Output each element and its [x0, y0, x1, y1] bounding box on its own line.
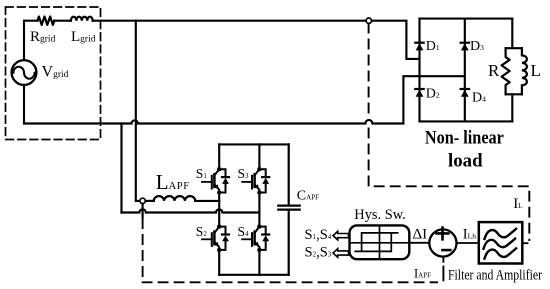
- svg-text:IL: IL: [513, 196, 522, 212]
- inductor L vertical: [522, 48, 527, 94]
- resistor R vertical: [502, 48, 510, 94]
- diode D1: [415, 43, 423, 51]
- grid source dashed box: [6, 7, 101, 140]
- svg-text:S1: S1: [196, 166, 208, 181]
- svg-text:ILh: ILh: [463, 227, 476, 243]
- gate signal arrow S2S3: [333, 249, 349, 258]
- svg-text:D4: D4: [472, 90, 486, 105]
- wire top bus: [93, 21, 420, 59]
- svg-text:D2: D2: [426, 86, 440, 101]
- svg-text:S2,S3: S2,S3: [305, 245, 332, 261]
- transistor S3: [242, 167, 269, 195]
- wire Vgrid top to resistor: [24, 21, 38, 61]
- transistor S2: [202, 224, 229, 252]
- diode D3: [461, 43, 469, 51]
- filter wave 3: [485, 248, 517, 258]
- svg-text:D1: D1: [426, 39, 440, 54]
- hysteresis loop: [355, 233, 398, 252]
- filter wave 2: [484, 239, 516, 249]
- wire APF tap from bottom bus: [120, 124, 122, 213]
- resistor Rgrid: [38, 17, 55, 25]
- current sensor IAPF node: [140, 198, 145, 203]
- voltage source Vgrid: [12, 60, 37, 85]
- load branch wire: [511, 19, 513, 122]
- svg-text:L: L: [531, 61, 541, 80]
- svg-text:Lgrid: Lgrid: [71, 29, 96, 45]
- svg-text:LAPF: LAPF: [156, 170, 190, 194]
- svg-text:Vgrid: Vgrid: [42, 64, 69, 81]
- H-bridge bottom rail: [219, 274, 289, 276]
- filter and amplifier box: [479, 222, 523, 263]
- load RL box bottom bar: [506, 93, 522, 95]
- svg-text:S3: S3: [238, 166, 250, 181]
- diode bridge bottom rail: [420, 120, 513, 122]
- svg-text:D3: D3: [470, 39, 484, 54]
- diode bridge top rail: [420, 18, 513, 20]
- svg-text:CAPF: CAPF: [297, 188, 319, 203]
- filter wave 1: [485, 229, 517, 239]
- dashed IL feedback path: [369, 24, 530, 241]
- wire filter to IL path: [522, 242, 527, 244]
- load RL box top bar: [506, 47, 522, 49]
- svg-text:ΔI: ΔI: [413, 227, 428, 243]
- wire inductor to left leg: [195, 200, 219, 202]
- wire APF lower with hops: [122, 209, 260, 212]
- hysteresis axis horizontal: [350, 242, 410, 244]
- dashed IAPF feedback path: [143, 219, 437, 282]
- svg-text:Non- linear: Non- linear: [425, 127, 504, 148]
- H-bridge right leg: [258, 144, 260, 274]
- diode bridge mid rail: [464, 19, 466, 122]
- current sensor IL node: [366, 18, 371, 23]
- transistor S4: [242, 224, 269, 252]
- svg-text:S2: S2: [196, 224, 208, 239]
- gate signal arrow S1S4: [333, 231, 349, 240]
- H-bridge top rail: [219, 143, 289, 145]
- svg-text:Rgrid: Rgrid: [30, 29, 56, 45]
- hysteresis axis vertical: [379, 225, 381, 259]
- inductor Lgrid: [71, 17, 93, 21]
- diode D2: [415, 89, 423, 97]
- wire bottom bus with hops: [24, 76, 465, 123]
- Hys Sw block: [350, 225, 410, 259]
- wire dI: [409, 242, 429, 244]
- capacitor CAPF: [278, 144, 299, 274]
- wire APF tap from top bus: [136, 21, 140, 201]
- svg-text:Hys. Sw.: Hys. Sw.: [354, 207, 406, 223]
- H-bridge left leg: [218, 144, 220, 274]
- wire resistor to inductor: [54, 20, 71, 22]
- svg-text:S1,S4: S1,S4: [305, 227, 332, 243]
- wire sensor to inductor LAPF: [145, 200, 154, 202]
- diode D4: [461, 89, 469, 97]
- transistor S1: [202, 167, 229, 195]
- inductor LAPF: [154, 196, 196, 201]
- svg-text:load: load: [448, 150, 483, 171]
- summing junction: [429, 229, 456, 256]
- svg-text:IAPF: IAPF: [414, 267, 431, 281]
- wire ILh: [457, 242, 479, 244]
- diode bridge left rail: [418, 19, 420, 122]
- svg-text:Filter and Amplifier: Filter and Amplifier: [448, 268, 542, 284]
- svg-text:S4: S4: [238, 224, 250, 239]
- svg-text:R: R: [488, 61, 500, 80]
